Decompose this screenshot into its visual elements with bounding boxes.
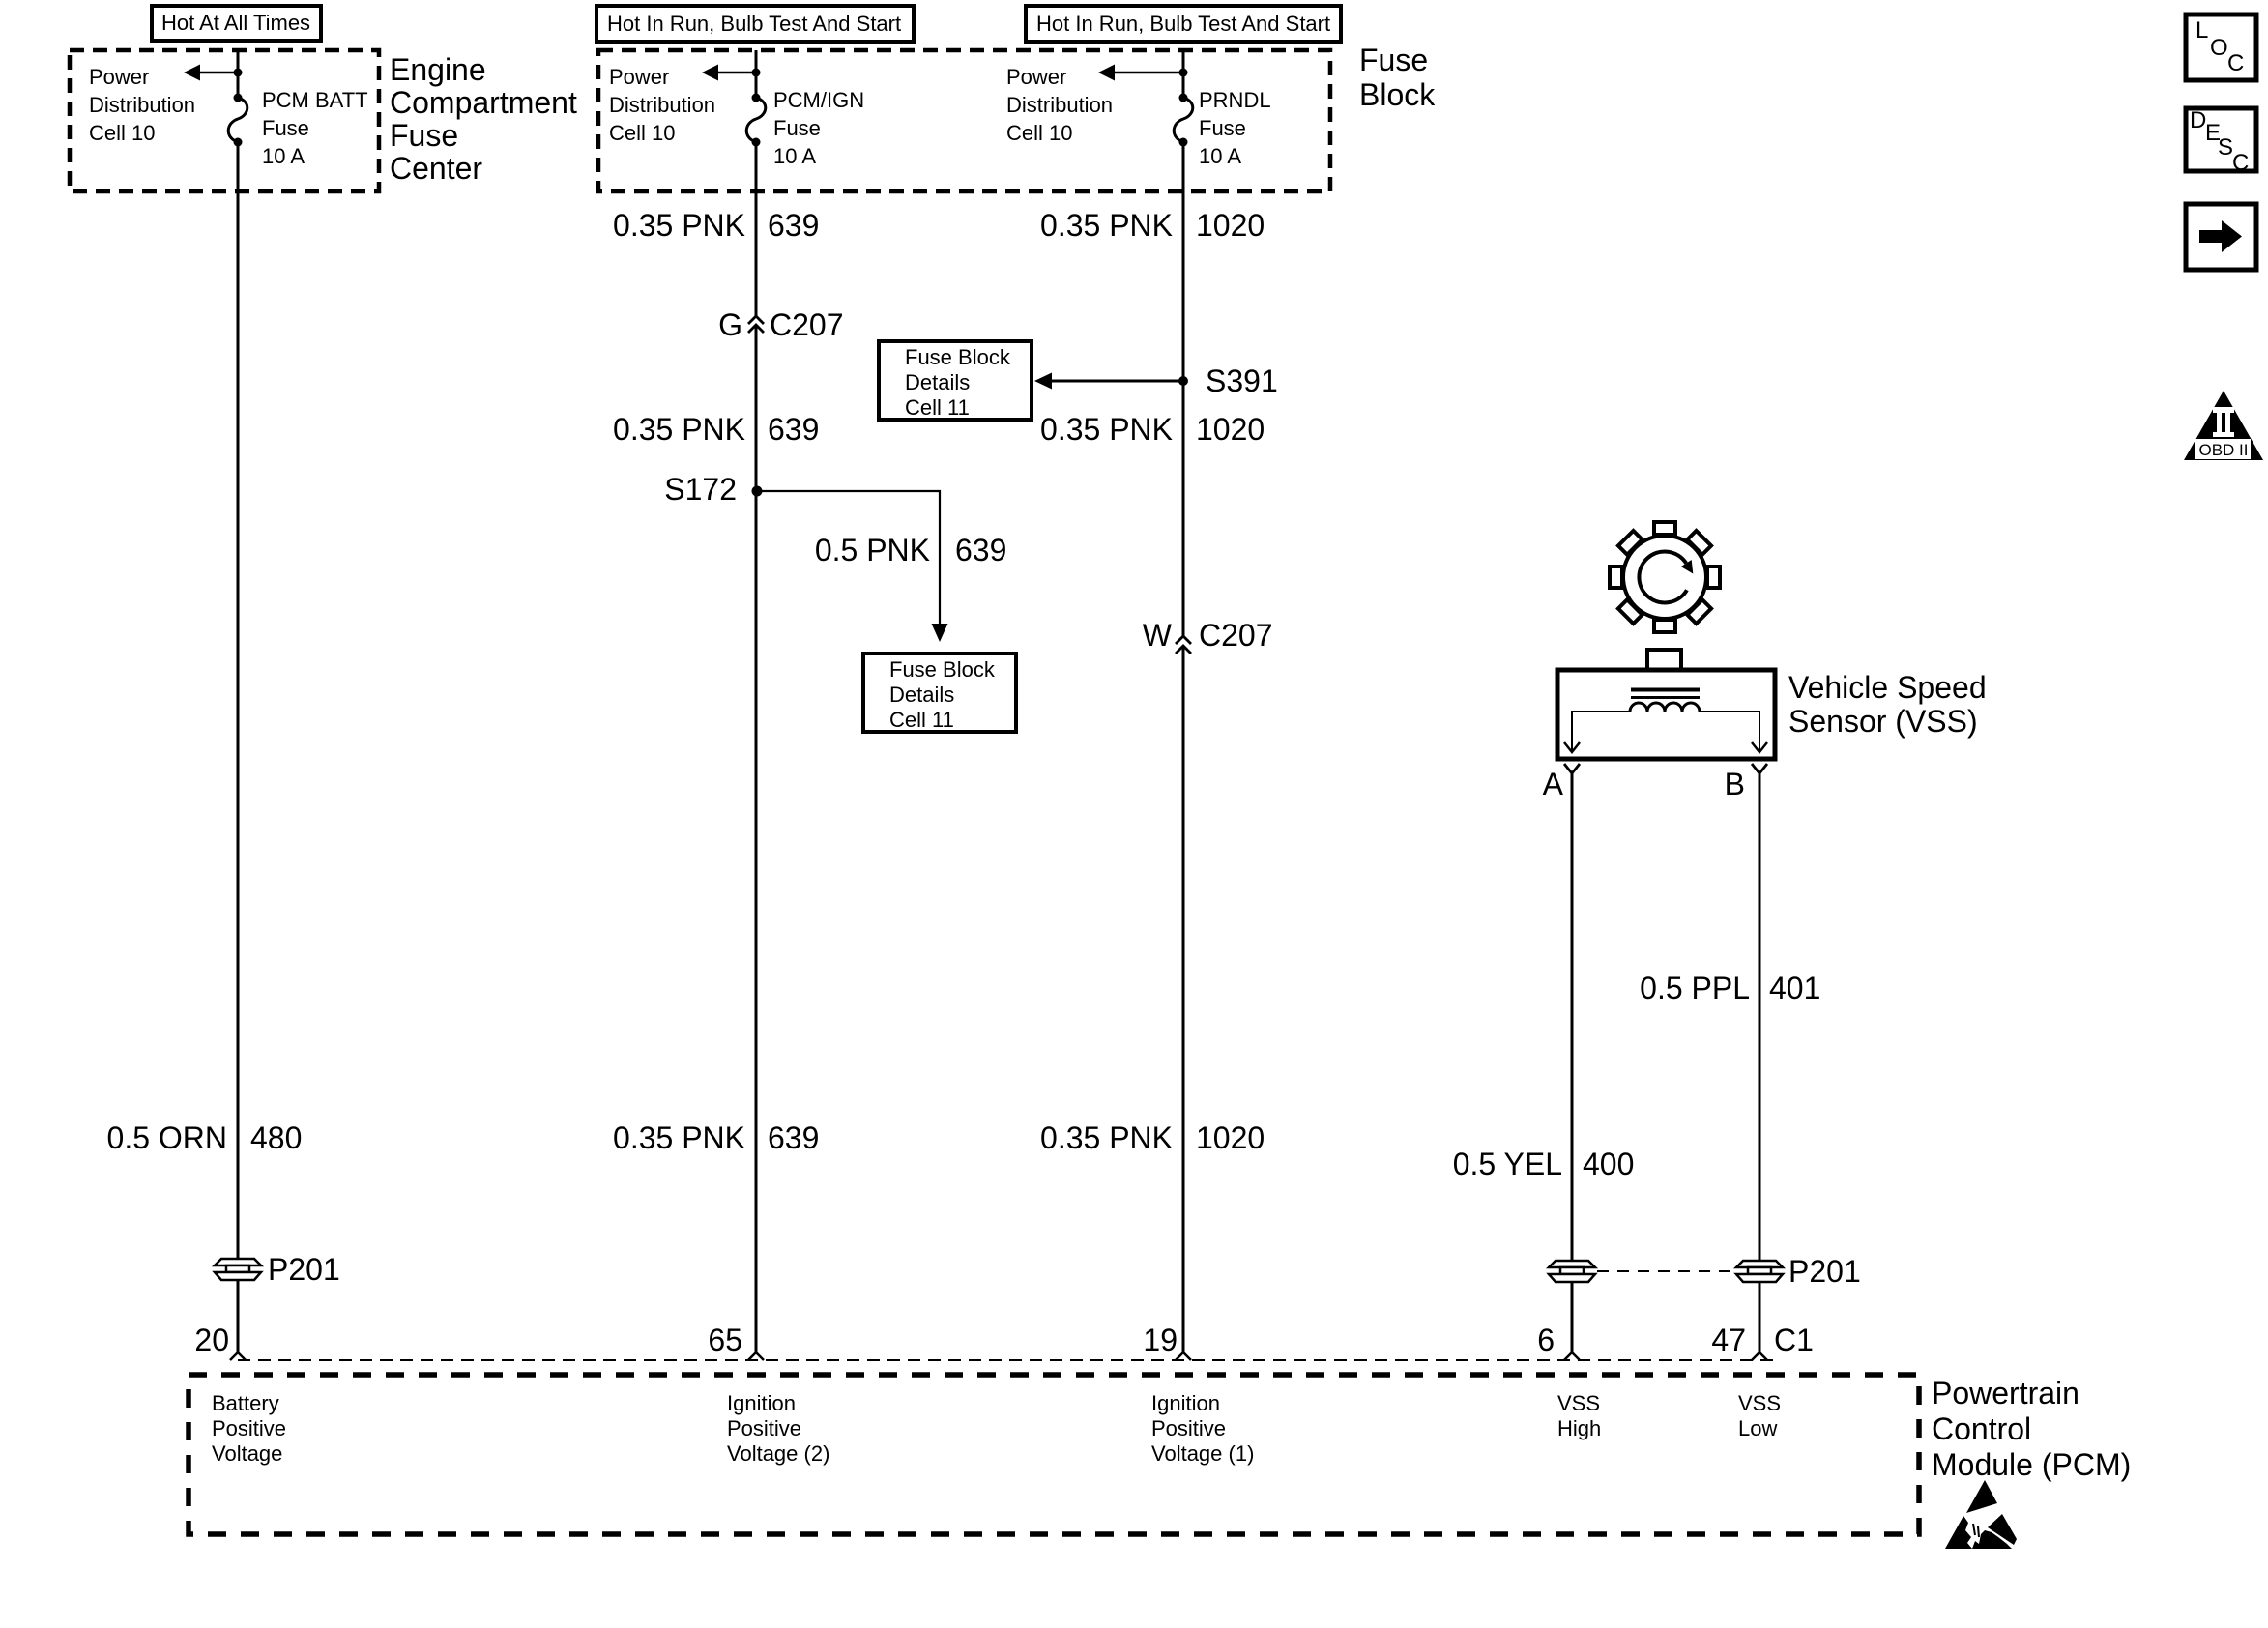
svg-text:0.35 PNK: 0.35 PNK bbox=[613, 412, 745, 447]
VSS internal lead to pin B bbox=[1700, 712, 1767, 752]
svg-text:0.5 PNK: 0.5 PNK bbox=[815, 533, 930, 567]
svg-text:0.35 PNK: 0.35 PNK bbox=[613, 208, 745, 243]
label: Powertrain Control Module (PCM) bbox=[1932, 1376, 2131, 1482]
junction node on wire 639 at power distribution tap bbox=[752, 69, 761, 77]
dashed box: Powertrain Control Module (PCM) bbox=[189, 1375, 1919, 1534]
text: PCM/IGN Fuse 10 A bbox=[773, 88, 864, 168]
svg-text:Sensor (VSS): Sensor (VSS) bbox=[1788, 704, 1978, 739]
svg-text:10 A: 10 A bbox=[773, 144, 816, 168]
wire: VSS high (0.5 YEL 400) bbox=[1571, 773, 1574, 1352]
arrow: Power Distribution tap (box B left) bbox=[702, 65, 756, 81]
connector C207 cavity G (inline connector symbol) bbox=[718, 307, 843, 342]
svg-text:S172: S172 bbox=[664, 472, 737, 507]
text: Power Distribution Cell 10 (box A) bbox=[89, 65, 195, 145]
node S391 bbox=[1178, 363, 1278, 398]
text: Ignition Positive Voltage (1) (pin 19) bbox=[1151, 1391, 1254, 1466]
svg-text:Cell 11: Cell 11 bbox=[889, 708, 954, 732]
svg-text:A: A bbox=[1543, 767, 1564, 801]
svg-text:C1: C1 bbox=[1774, 1323, 1814, 1357]
icon: OBD II triangle bbox=[2184, 391, 2263, 460]
grommet P201 on VSS low wire bbox=[1736, 1254, 1861, 1289]
header box: Hot In Run, Bulb Test And Start (right) bbox=[1026, 6, 1341, 42]
icon box: forward arrow bbox=[2186, 204, 2256, 270]
node S172 bbox=[664, 472, 762, 507]
svg-text:10 A: 10 A bbox=[262, 144, 305, 168]
svg-text:C: C bbox=[2227, 50, 2244, 76]
grommet P201 on VSS high wire bbox=[1549, 1261, 1595, 1282]
svg-text:PCM/IGN: PCM/IGN bbox=[773, 88, 864, 112]
svg-text:Positive: Positive bbox=[727, 1416, 801, 1440]
svg-text:Fuse: Fuse bbox=[773, 116, 821, 140]
PCM pin 47 (female terminal) + connector C1 bbox=[1711, 1323, 1814, 1360]
svg-text:C207: C207 bbox=[1199, 618, 1273, 653]
svg-text:PRNDL: PRNDL bbox=[1199, 88, 1271, 112]
svg-text:Engine: Engine bbox=[390, 52, 486, 87]
label: Engine Compartment Fuse Center bbox=[390, 52, 577, 186]
text: PRNDL Fuse 10 A bbox=[1199, 88, 1271, 168]
VSS pickup core plates bbox=[1631, 690, 1700, 698]
svg-text:0.35 PNK: 0.35 PNK bbox=[1040, 1120, 1173, 1155]
svg-text:Low: Low bbox=[1738, 1416, 1777, 1440]
wire label: 0.5 YEL 400 bbox=[1453, 1147, 1635, 1181]
PCM pin 65 (female terminal) bbox=[708, 1323, 764, 1360]
wire label: 0.5 PNK 639 (branch) bbox=[815, 533, 1007, 567]
svg-text:Hot In Run, Bulb Test And Star: Hot In Run, Bulb Test And Start bbox=[607, 12, 901, 36]
wire label: 0.5 ORN 480 bbox=[107, 1120, 303, 1155]
svg-text:S: S bbox=[2218, 134, 2233, 160]
svg-text:Fuse: Fuse bbox=[1359, 43, 1428, 77]
svg-text:B: B bbox=[1725, 767, 1745, 801]
VSS pin A (female terminal) bbox=[1543, 764, 1580, 801]
svg-text:Fuse Block: Fuse Block bbox=[905, 345, 1011, 369]
PCM pin 6 (female terminal) bbox=[1537, 1323, 1580, 1360]
fuse PCM BATT 10 A bbox=[228, 94, 247, 147]
VSS internal lead to pin A bbox=[1564, 712, 1630, 752]
svg-text:Fuse Block: Fuse Block bbox=[889, 657, 996, 682]
header box: Hot In Run, Bulb Test And Start (left) bbox=[596, 6, 914, 42]
svg-text:High: High bbox=[1557, 1416, 1601, 1440]
wire label: 0.35 PNK 1020 (middle) bbox=[1040, 412, 1265, 447]
svg-text:Block: Block bbox=[1359, 77, 1436, 112]
svg-text:O: O bbox=[2210, 35, 2228, 61]
text: Ignition Positive Voltage (2) (pin 65) bbox=[727, 1391, 829, 1466]
arrow: Power Distribution tap (box A) bbox=[184, 65, 238, 81]
junction node on wire 480 at power distribution tap bbox=[234, 69, 243, 77]
dashed box: Fuse Block bbox=[598, 50, 1330, 191]
fuse PRNDL 10 A bbox=[1174, 94, 1193, 147]
icon box: DESC bbox=[2186, 107, 2256, 176]
svg-text:W: W bbox=[1143, 618, 1173, 653]
svg-text:0.35 PNK: 0.35 PNK bbox=[1040, 412, 1173, 447]
connector C1 interface line (thin dashed) bbox=[238, 1359, 1773, 1361]
svg-text:Power: Power bbox=[1006, 65, 1066, 89]
VSS mounting boss (pedestal) bbox=[1647, 650, 1681, 670]
svg-text:1020: 1020 bbox=[1196, 208, 1265, 243]
svg-text:VSS: VSS bbox=[1557, 1391, 1600, 1415]
svg-text:C207: C207 bbox=[770, 307, 844, 342]
label: Fuse Block bbox=[1359, 43, 1436, 112]
svg-text:OBD II: OBD II bbox=[2198, 441, 2248, 459]
svg-text:Fuse: Fuse bbox=[262, 116, 309, 140]
svg-text:47: 47 bbox=[1711, 1323, 1746, 1357]
wire: branch from S172 to fuse block details (0.5 PNK 639) bbox=[757, 491, 940, 625]
header box: Hot At All Times bbox=[152, 6, 321, 41]
svg-text:Voltage (1): Voltage (1) bbox=[1151, 1441, 1254, 1466]
svg-text:Hot In Run, Bulb Test And Star: Hot In Run, Bulb Test And Start bbox=[1036, 12, 1330, 36]
svg-text:Distribution: Distribution bbox=[1006, 93, 1113, 117]
svg-text:Center: Center bbox=[390, 151, 482, 186]
VSS pin B (female terminal) bbox=[1725, 764, 1767, 801]
svg-text:Distribution: Distribution bbox=[89, 93, 195, 117]
svg-text:Control: Control bbox=[1932, 1411, 2031, 1446]
text: Power Distribution Cell 10 (box B left) bbox=[609, 65, 715, 145]
arrow: branch down to Fuse Block Details (lower) bbox=[932, 624, 948, 642]
svg-text:0.35 PNK: 0.35 PNK bbox=[613, 1120, 745, 1155]
ESD sensitivity symbol (triangle with hand) bbox=[1945, 1480, 2017, 1549]
svg-text:Positive: Positive bbox=[1151, 1416, 1226, 1440]
text: VSS Low (pin 47) bbox=[1738, 1391, 1781, 1440]
svg-text:Voltage: Voltage bbox=[212, 1441, 282, 1466]
dashed box: Engine Compartment Fuse Center bbox=[70, 50, 379, 191]
wire: PCM BATT feed vertical (circuit 480) bbox=[237, 50, 240, 1352]
svg-text:Ignition: Ignition bbox=[1151, 1391, 1220, 1415]
arrow: Power Distribution tap (box B right) bbox=[1098, 65, 1183, 81]
fuse PCM/IGN 10 A bbox=[746, 94, 766, 147]
svg-text:Compartment: Compartment bbox=[390, 85, 577, 120]
svg-text:L: L bbox=[2195, 17, 2208, 44]
icon box: LOC bbox=[2186, 15, 2256, 80]
svg-text:0.5 YEL: 0.5 YEL bbox=[1453, 1147, 1562, 1181]
svg-text:Ignition: Ignition bbox=[727, 1391, 796, 1415]
svg-text:639: 639 bbox=[768, 208, 819, 243]
text: Battery Positive Voltage (pin 20) bbox=[212, 1391, 286, 1466]
grommet P201 on wire 480 bbox=[215, 1252, 340, 1287]
svg-text:Battery: Battery bbox=[212, 1391, 279, 1415]
svg-text:Power: Power bbox=[609, 65, 669, 89]
svg-text:65: 65 bbox=[708, 1323, 742, 1357]
wire: PRNDL feed vertical (circuit 1020) bbox=[1182, 50, 1185, 1352]
svg-text:S391: S391 bbox=[1206, 363, 1278, 398]
svg-text:Fuse: Fuse bbox=[390, 118, 458, 153]
svg-text:0.5 PPL: 0.5 PPL bbox=[1640, 971, 1750, 1005]
svg-text:639: 639 bbox=[768, 1120, 819, 1155]
wire label: 0.35 PNK 639 (middle) bbox=[613, 412, 819, 447]
svg-text:639: 639 bbox=[768, 412, 819, 447]
svg-text:20: 20 bbox=[194, 1323, 229, 1357]
dashed tie line between P201 grommets bbox=[1597, 1270, 1734, 1272]
svg-text:1020: 1020 bbox=[1196, 1120, 1265, 1155]
svg-text:401: 401 bbox=[1769, 971, 1820, 1005]
svg-text:Fuse: Fuse bbox=[1199, 116, 1246, 140]
VSS pickup coil L1 bbox=[1630, 703, 1700, 712]
svg-text:D: D bbox=[2190, 107, 2206, 133]
svg-text:Positive: Positive bbox=[212, 1416, 286, 1440]
text: Power Distribution Cell 10 (box B right) bbox=[1006, 65, 1113, 145]
svg-text:0.35 PNK: 0.35 PNK bbox=[1040, 208, 1173, 243]
svg-text:P201: P201 bbox=[1788, 1254, 1861, 1289]
box: Fuse Block Details Cell 11 (lower) bbox=[863, 654, 1016, 732]
wire label: 0.35 PNK 639 (top) bbox=[613, 208, 819, 243]
junction node on wire 1020 at power distribution tap bbox=[1179, 69, 1188, 77]
svg-text:Module (PCM): Module (PCM) bbox=[1932, 1447, 2131, 1482]
svg-text:Distribution: Distribution bbox=[609, 93, 715, 117]
svg-text:1020: 1020 bbox=[1196, 412, 1265, 447]
box: Fuse Block Details Cell 11 (upper) bbox=[879, 341, 1032, 420]
text: VSS High (pin 6) bbox=[1557, 1391, 1601, 1440]
PCM pin 20 (female terminal) bbox=[194, 1323, 246, 1360]
wire label: 0.35 PNK 639 (bottom) bbox=[613, 1120, 819, 1155]
connector C207 cavity W (inline connector symbol) bbox=[1143, 618, 1273, 654]
wire label: 0.5 PPL 401 bbox=[1640, 971, 1820, 1005]
svg-text:Cell 10: Cell 10 bbox=[89, 121, 155, 145]
svg-text:10 A: 10 A bbox=[1199, 144, 1241, 168]
wire label: 0.35 PNK 1020 (bottom) bbox=[1040, 1120, 1265, 1155]
wire: PCM/IGN feed vertical (circuit 639) bbox=[755, 50, 758, 1352]
svg-text:480: 480 bbox=[250, 1120, 302, 1155]
svg-text:C: C bbox=[2232, 150, 2249, 176]
svg-text:6: 6 bbox=[1537, 1323, 1555, 1357]
vehicle speed sensor VSS box bbox=[1557, 670, 1775, 759]
svg-text:Power: Power bbox=[89, 65, 149, 89]
svg-text:Cell 10: Cell 10 bbox=[1006, 121, 1072, 145]
gear / tone wheel above VSS bbox=[1610, 522, 1720, 632]
svg-text:P201: P201 bbox=[268, 1252, 340, 1287]
svg-text:Voltage (2): Voltage (2) bbox=[727, 1441, 829, 1466]
svg-text:VSS: VSS bbox=[1738, 1391, 1781, 1415]
svg-text:PCM BATT: PCM BATT bbox=[262, 88, 368, 112]
arrow: S391 to Fuse Block Details bbox=[1034, 373, 1183, 390]
svg-text:G: G bbox=[718, 307, 742, 342]
svg-text:Details: Details bbox=[889, 683, 954, 707]
svg-text:0.5 ORN: 0.5 ORN bbox=[107, 1120, 227, 1155]
PCM pin 19 (female terminal) bbox=[1143, 1323, 1191, 1360]
svg-text:639: 639 bbox=[955, 533, 1006, 567]
svg-text:19: 19 bbox=[1143, 1323, 1178, 1357]
svg-text:Powertrain: Powertrain bbox=[1932, 1376, 2079, 1410]
svg-text:Cell 10: Cell 10 bbox=[609, 121, 675, 145]
svg-text:Vehicle Speed: Vehicle Speed bbox=[1788, 670, 1987, 705]
wire: VSS low (0.5 PPL 401) bbox=[1759, 773, 1761, 1352]
text: PCM BATT Fuse 10 A bbox=[262, 88, 368, 168]
label: Vehicle Speed Sensor (VSS) bbox=[1788, 670, 1987, 739]
svg-text:Hot At All Times: Hot At All Times bbox=[161, 11, 310, 35]
svg-text:Details: Details bbox=[905, 370, 970, 394]
svg-text:Cell 11: Cell 11 bbox=[905, 395, 970, 420]
wire label: 0.35 PNK 1020 (top) bbox=[1040, 208, 1265, 243]
svg-text:400: 400 bbox=[1583, 1147, 1634, 1181]
